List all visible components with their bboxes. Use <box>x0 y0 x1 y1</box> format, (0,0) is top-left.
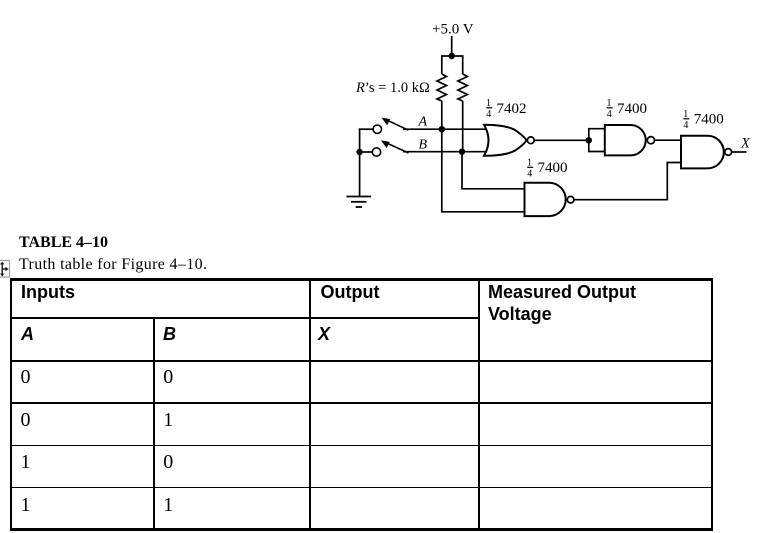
switch SW2 contact circle (B) <box>372 148 380 156</box>
op... NOR gate U1 (1/4 7402) <box>484 125 526 156</box>
table right border <box>711 278 713 531</box>
label 1/4 7400 (U2) <box>607 98 648 120</box>
data row 4: B=1 <box>163 495 173 515</box>
svg-text:B: B <box>419 138 428 153</box>
table column border A|B <box>153 317 155 531</box>
node A junction dot <box>439 126 445 132</box>
svg-text:7400: 7400 <box>617 101 647 117</box>
svg-text:X: X <box>740 135 751 151</box>
wire U2 output to U3 input A <box>655 139 681 141</box>
table header: Output <box>321 283 380 301</box>
label 1/4 7400 (U4) <box>527 158 568 180</box>
wire switch A to common rail <box>359 128 373 130</box>
U4 output bubble <box>567 196 574 203</box>
switch SW1 arm (A) <box>385 119 409 130</box>
caption: TABLE 4-10 <box>19 235 108 251</box>
ground symbol <box>347 197 372 208</box>
data row 3: A=1 <box>21 452 31 472</box>
wire input line A <box>403 128 489 130</box>
NAND gate U4 (1/4 7400, lower) <box>525 183 566 216</box>
data row 4: A=1 <box>21 495 31 515</box>
NAND gate U2 (1/4 7400, inverter wired) <box>605 125 646 155</box>
wire U1 output to tie node <box>534 139 589 141</box>
NAND gate U3 (1/4 7400, output X) <box>681 136 724 169</box>
wire supply split to both resistors <box>442 56 463 74</box>
table border under data row 2 <box>10 445 713 447</box>
U1 output bubble <box>527 137 534 144</box>
table border under header row 1 (Inputs/Output) <box>10 317 479 319</box>
table bottom border <box>10 528 713 531</box>
table header: Measured Output Voltage <box>488 281 636 326</box>
wire R1 bottom to node A <box>441 101 443 129</box>
U3 output bubble <box>725 149 732 156</box>
data row 1: B=0 <box>163 367 173 387</box>
node: U2 input tie dot <box>586 137 592 143</box>
wire tie both U2 inputs <box>589 129 605 152</box>
data row 2: B=1 <box>163 410 173 430</box>
svg-text:R’s = 1.0 kΩ: R’s = 1.0 kΩ <box>355 80 430 96</box>
table border under data row 1 <box>10 402 713 404</box>
U2 output bubble <box>647 137 654 144</box>
data row 1: A=0 <box>21 367 31 387</box>
label 1/4 7400 (U3) <box>683 109 724 131</box>
table header: B <box>163 325 176 343</box>
wire U4 output up to U3 input B <box>574 163 681 200</box>
svg-text:+5.0 V: +5.0 V <box>432 22 474 38</box>
table border under data row 3 <box>10 487 713 489</box>
node: rail junction dot <box>356 149 362 155</box>
switch SW2 arm (B) <box>385 142 409 153</box>
wire node A down and right to U4 input B <box>442 129 525 212</box>
svg-text:4: 4 <box>683 120 688 131</box>
svg-text:A: A <box>418 115 428 130</box>
svg-text:4: 4 <box>607 109 612 120</box>
table header: A <box>21 325 34 343</box>
wire input line B <box>403 151 489 153</box>
wire common rail down to ground <box>359 128 361 196</box>
table left border <box>10 278 12 531</box>
switch SW1 contact circle (A) <box>373 125 381 133</box>
table column border X|Measured <box>478 278 480 531</box>
margin anchor icon <box>0 259 14 279</box>
node B junction dot <box>459 149 465 155</box>
wire R2 bottom to node B <box>462 101 464 152</box>
resistor R1 (left, 1.0 k) <box>437 74 447 101</box>
data row 2: A=0 <box>21 410 31 430</box>
node: supply junction dot <box>449 53 455 59</box>
caption: Truth table for Figure 4-10. <box>19 257 207 273</box>
svg-text:7402: 7402 <box>497 101 527 117</box>
label 1/4 7402 <box>486 98 527 120</box>
svg-text:4: 4 <box>486 109 491 120</box>
wire from +5.0V down to junction <box>451 36 453 56</box>
resistor R2 (right, 1.0 k) <box>458 74 468 101</box>
table column border B|X <box>309 278 311 531</box>
data row 3: B=0 <box>163 452 173 472</box>
table border under header row 2 <box>10 360 713 362</box>
svg-text:4: 4 <box>527 169 532 180</box>
table header: Inputs <box>21 283 75 301</box>
wire switch B to common rail <box>359 151 373 153</box>
table header: X <box>318 325 330 343</box>
svg-text:7400: 7400 <box>538 160 568 176</box>
wire U3 output <box>732 151 747 153</box>
svg-text:7400: 7400 <box>694 112 724 128</box>
table top border <box>10 278 713 280</box>
wire node B down and right to U4 input A <box>462 152 525 189</box>
